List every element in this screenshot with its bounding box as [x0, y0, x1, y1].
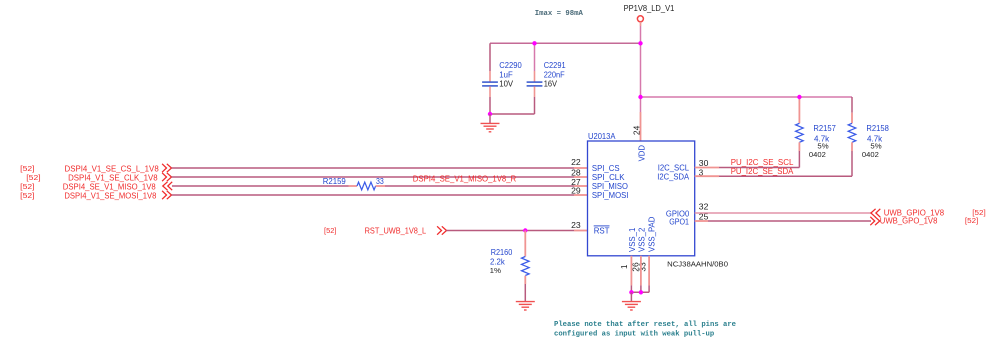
ground caps [481, 122, 500, 124]
svg-text:R2159: R2159 [323, 177, 347, 186]
capacitor C2290 top lead [489, 43, 491, 71]
svg-text:PU_I2C_SE_SDA: PU_I2C_SE_SDA [731, 167, 794, 176]
svg-text:SPI_CS: SPI_CS [592, 164, 620, 173]
svg-text:PU_I2C_SE_SCL: PU_I2C_SE_SCL [731, 158, 794, 167]
svg-text:1uF: 1uF [499, 70, 512, 79]
wire SPI_CLK [172, 176, 575, 178]
svg-text:24: 24 [633, 125, 642, 135]
off-page arrow UWB_GPO_1V8 [870, 217, 879, 225]
svg-text:SPI_MOSI: SPI_MOSI [592, 191, 629, 200]
node junction C2291 rail [532, 41, 536, 45]
svg-text:Please note that after reset,: Please note that after reset, all pins a… [554, 321, 737, 329]
wire VSS join [631, 291, 649, 293]
node junction VSS1 [629, 290, 633, 294]
power flag circle [637, 16, 643, 22]
node junction RST R2160 [523, 228, 527, 232]
svg-text:[52]: [52] [965, 216, 978, 225]
svg-text:configured as input with weak: configured as input with weak pull-up [554, 331, 715, 339]
capacitor C2290 bottom lead [489, 86, 491, 97]
svg-text:VDD: VDD [637, 145, 646, 162]
capacitor C2290 plates [482, 81, 498, 83]
svg-text:PP1V8_LD_V1: PP1V8_LD_V1 [624, 4, 675, 13]
svg-text:[52]: [52] [20, 182, 34, 191]
svg-text:DSPI4_SE_V1_MISO_1V8: DSPI4_SE_V1_MISO_1V8 [63, 182, 156, 191]
svg-text:0402: 0402 [809, 150, 826, 159]
svg-text:NCJ38AAHN/0B0: NCJ38AAHN/0B0 [667, 260, 728, 269]
svg-text:220nF: 220nF [544, 70, 565, 79]
svg-text:[52]: [52] [26, 173, 40, 182]
resistor R2159 [357, 182, 376, 190]
wire power vertical PP1V8 [640, 22, 642, 26]
svg-text:GPO1: GPO1 [669, 218, 689, 227]
pin 33 stub [648, 256, 650, 286]
resistor R2157 bottom lead [798, 142, 800, 151]
svg-text:1%: 1% [490, 266, 502, 275]
wire I2C_SDA [695, 175, 719, 177]
svg-text:VSS_PAD: VSS_PAD [648, 216, 657, 252]
node junction VSS2 [639, 290, 643, 294]
wire GPO1 [695, 220, 708, 222]
capacitor C2291 plates [527, 81, 543, 83]
ground stem caps [489, 114, 491, 123]
wire I2C_SCL [695, 167, 719, 169]
svg-text:DSPI4_V1_SE_CLK_1V8: DSPI4_V1_SE_CLK_1V8 [68, 173, 158, 182]
off-page arrow UWB_GPIO_1V8 [871, 209, 880, 217]
svg-text:30: 30 [699, 159, 709, 168]
svg-text:27: 27 [571, 178, 581, 187]
resistor R2159 right lead [376, 185, 385, 187]
svg-text:23: 23 [571, 221, 581, 230]
svg-text:0402: 0402 [862, 150, 879, 159]
svg-text:1: 1 [620, 264, 629, 269]
svg-text:33: 33 [376, 177, 384, 186]
wire SPI_MISO right [385, 185, 574, 187]
svg-text:[52]: [52] [324, 226, 337, 235]
svg-text:33: 33 [638, 262, 647, 272]
wire cap bottom [490, 113, 535, 115]
svg-text:SPI_MISO: SPI_MISO [592, 182, 628, 191]
svg-text:[52]: [52] [20, 191, 34, 200]
svg-text:VSS_1: VSS_1 [628, 228, 637, 252]
svg-text:28: 28 [571, 168, 581, 177]
svg-text:RST_UWB_1V8_L: RST_UWB_1V8_L [365, 226, 427, 235]
off-page arrow DSPI4_V1_SE_CLK_1V8 [162, 173, 171, 181]
node junction power-rail2 [638, 95, 642, 99]
IC U2013A outline [588, 141, 695, 256]
svg-text:10V: 10V [499, 79, 513, 88]
node junction power-caps [638, 41, 642, 45]
wire RST [447, 230, 575, 232]
svg-text:5%: 5% [817, 141, 829, 150]
svg-text:SPI_CLK: SPI_CLK [592, 173, 625, 182]
node junction cap ground [488, 112, 492, 116]
resistor R2160 bottom lead [524, 276, 526, 284]
svg-text:UWB_GPO_1V8: UWB_GPO_1V8 [880, 216, 938, 225]
node junction R2157 rail [797, 95, 801, 99]
svg-text:R2160: R2160 [491, 248, 513, 257]
resistor R2158 bottom lead [851, 142, 853, 151]
svg-text:I2C_SDA: I2C_SDA [657, 173, 689, 182]
wire pull-up rail [641, 96, 853, 98]
svg-text:22: 22 [571, 158, 581, 167]
ground R2160 [516, 301, 535, 303]
off-page arrow DSPI4_V1_SE_CS_L_1V8 [162, 164, 171, 172]
svg-text:I2C_SCL: I2C_SCL [658, 164, 690, 173]
resistor R2160 [522, 257, 530, 276]
pin 26 stub [640, 256, 642, 286]
svg-text:U2013A: U2013A [588, 132, 616, 141]
svg-text:[52]: [52] [20, 164, 34, 173]
wire GPIO0 [695, 212, 871, 214]
svg-text:16V: 16V [544, 79, 558, 88]
resistor R2157 top lead [798, 97, 800, 123]
svg-text:R2157: R2157 [813, 124, 836, 133]
wire SPI_CS [172, 167, 575, 169]
svg-text:Imax = 98mA: Imax = 98mA [535, 10, 584, 18]
svg-text:DSPI4_SE_V1_MISO_1V8_R: DSPI4_SE_V1_MISO_1V8_R [413, 175, 517, 184]
svg-text:29: 29 [571, 187, 581, 196]
capacitor C2291 top lead [534, 43, 536, 71]
resistor R2160 top lead [524, 231, 526, 257]
capacitor C2291 bottom lead [534, 86, 536, 97]
ground stem IC [630, 292, 632, 301]
off-page arrow DSPI4_V1_SE_MOSI_1V8 [162, 191, 171, 199]
svg-text:RST: RST [594, 226, 610, 235]
resistor R2159 left lead [349, 185, 358, 187]
resistor R2158 [848, 123, 856, 142]
svg-text:C2291: C2291 [544, 61, 566, 70]
svg-text:VSS_2: VSS_2 [638, 228, 647, 252]
pin 24 stub [640, 112, 642, 141]
resistor R2157 [796, 123, 804, 142]
svg-text:DSPI4_V1_SE_CS_L_1V8: DSPI4_V1_SE_CS_L_1V8 [65, 164, 160, 173]
wire SPI_MISO left [172, 185, 349, 187]
svg-text:5%: 5% [870, 141, 882, 150]
svg-text:R2158: R2158 [866, 124, 889, 133]
svg-text:32: 32 [699, 203, 709, 212]
svg-text:DSPI4_V1_SE_MOSI_1V8: DSPI4_V1_SE_MOSI_1V8 [64, 191, 157, 200]
ground IC [622, 301, 641, 303]
off-page arrow RST_UWB_1V8_L [437, 226, 446, 234]
pin 1 stub [630, 256, 632, 286]
off-page arrow DSPI4_SE_V1_MISO_1V8 [163, 182, 172, 190]
resistor R2158 top lead [851, 97, 853, 113]
wire SPI_MOSI [172, 194, 575, 196]
wire cap rail [490, 42, 641, 44]
svg-text:C2290: C2290 [499, 61, 522, 70]
